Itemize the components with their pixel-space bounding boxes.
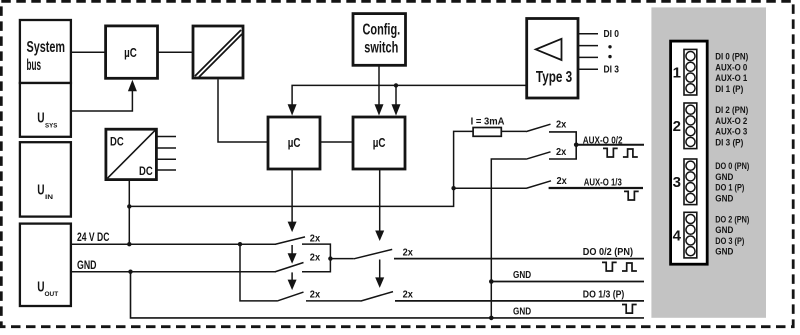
bus wire from Type 3 to uC2 xyxy=(292,85,527,104)
pin labels group 4 xyxy=(715,215,749,258)
arrow into uC2 top xyxy=(288,104,297,115)
svg-text:U: U xyxy=(37,110,44,127)
waveform negative pulse xyxy=(603,148,618,157)
svg-text:4: 4 xyxy=(673,228,682,245)
node on 24V rail xyxy=(127,242,131,246)
svg-text:U: U xyxy=(37,278,44,295)
svg-text:2x: 2x xyxy=(310,233,321,244)
wire internal rail to current source xyxy=(129,131,473,206)
switch DO 1/3 first 2x xyxy=(277,292,304,301)
switch DO 1/3 second 2x xyxy=(361,292,394,302)
wire bottom GND rail xyxy=(131,272,645,318)
waveform positive pulse xyxy=(622,263,637,271)
svg-text:I = 3mA: I = 3mA xyxy=(471,116,505,127)
block U_IN xyxy=(20,142,71,216)
node bottom rail to AUX low xyxy=(489,316,494,321)
wire feed to AUX-O 1/3 switch xyxy=(454,187,526,189)
comparator block Type 3 input stage xyxy=(527,19,578,99)
svg-text:Type 3: Type 3 xyxy=(536,69,573,86)
svg-text:DC: DC xyxy=(110,134,124,148)
svg-text:DO 2 (PN): DO 2 (PN) xyxy=(715,215,749,226)
wire uC1 to isolator xyxy=(158,51,194,53)
wire resistor to AUX switch xyxy=(501,130,526,132)
svg-text:OUT: OUT xyxy=(45,291,59,298)
wire AUX-O 0/2 output xyxy=(576,144,644,146)
svg-text:GND: GND xyxy=(715,225,733,236)
svg-text:24 V DC: 24 V DC xyxy=(77,230,110,244)
svg-text:2: 2 xyxy=(673,118,681,135)
block U_OUT xyxy=(20,224,71,306)
svg-text:2x: 2x xyxy=(310,289,321,300)
wire GND to AUX low switch xyxy=(491,159,526,318)
wire bridge node to series switch xyxy=(330,258,353,260)
node bridge output xyxy=(328,256,332,260)
svg-text:DO 0/2 (PN): DO 0/2 (PN) xyxy=(583,247,633,258)
svg-text:µC: µC xyxy=(373,136,386,150)
wire Config. switch to uC3 with arrow xyxy=(378,65,380,104)
svg-text:2x: 2x xyxy=(557,176,568,187)
microcontroller uC1 xyxy=(106,26,158,78)
svg-text:µC: µC xyxy=(124,46,137,60)
svg-text:AUX-O 1: AUX-O 1 xyxy=(715,73,748,84)
svg-text:bus: bus xyxy=(27,57,42,74)
isolator block (galvanic isolation) xyxy=(193,26,243,78)
svg-text:IN: IN xyxy=(45,194,53,201)
pin labels group 2 xyxy=(715,105,748,148)
node DC/DC internal rail xyxy=(127,204,131,208)
connector pin group 1 xyxy=(684,49,697,95)
wire 24V branch to DO 1/3 row xyxy=(240,244,277,301)
wire uC2 to uC3 xyxy=(320,141,353,143)
wire uC3 control arrows xyxy=(375,169,384,288)
microcontroller uC2 xyxy=(268,117,320,169)
wire DO 1/3 (P) output xyxy=(395,300,644,302)
wire U_SYS to uC1 with arrow xyxy=(71,80,137,111)
wire DC/DC down to 24V rail xyxy=(128,180,130,245)
svg-text:System: System xyxy=(27,39,66,56)
svg-text:AUX-O 0/2: AUX-O 0/2 xyxy=(583,136,623,147)
svg-text:AUX-O 1/3: AUX-O 1/3 xyxy=(584,177,622,188)
pin labels group 1 xyxy=(715,52,748,95)
switch AUX-O high side 2x xyxy=(526,124,551,131)
svg-text:DI 3: DI 3 xyxy=(604,65,620,76)
svg-text:DO 3 (P): DO 3 (P) xyxy=(715,236,744,247)
svg-text:switch: switch xyxy=(364,40,398,57)
svg-text:GND: GND xyxy=(77,258,97,272)
wire isolator to uC2 xyxy=(218,79,268,142)
connector pin group 3 xyxy=(684,159,697,205)
svg-text:DI 1 (P): DI 1 (P) xyxy=(715,84,743,95)
svg-text:GND: GND xyxy=(715,193,733,204)
svg-text:DO 1 (P): DO 1 (P) xyxy=(715,183,744,194)
connector pin group 2 xyxy=(684,103,697,149)
wire uC2 control arrows xyxy=(288,169,297,290)
switch AUX-O 1/3 2x xyxy=(526,181,551,189)
svg-text:2x: 2x xyxy=(403,289,414,300)
block Config. switch xyxy=(353,14,406,66)
waveform negative pulse xyxy=(624,191,639,200)
node feed AUX-O 1/3 xyxy=(451,186,455,190)
svg-text:2x: 2x xyxy=(310,253,321,264)
block U_SYS xyxy=(20,83,71,137)
svg-text:2x: 2x xyxy=(556,147,567,158)
wire between DO 1/3 switches xyxy=(306,300,361,302)
DC/DC output stubs xyxy=(157,137,176,171)
svg-text:µC: µC xyxy=(288,136,301,150)
svg-text:DI 0: DI 0 xyxy=(604,29,620,40)
svg-text:DO 0 (PN): DO 0 (PN) xyxy=(715,161,749,172)
svg-text:DO 1/3 (P): DO 1/3 (P) xyxy=(583,290,625,301)
wire AUX-O 1/3 output xyxy=(549,187,643,189)
svg-text:DI 0 (PN): DI 0 (PN) xyxy=(715,52,748,63)
microcontroller uC3 xyxy=(353,117,405,169)
svg-text:SYS: SYS xyxy=(45,122,58,129)
svg-text:1: 1 xyxy=(673,65,681,82)
wire DO 0/2 (PN) output xyxy=(394,258,644,260)
switch DO low side 2x xyxy=(275,263,304,272)
switch DO 0/2 series 2x xyxy=(354,249,392,258)
wire GND rail xyxy=(71,271,276,273)
svg-text:GND: GND xyxy=(715,172,733,183)
connector pin group 4 xyxy=(684,212,697,258)
wire System bus to uC1 xyxy=(71,51,106,53)
wire bus to uC3 with arrow xyxy=(395,85,397,104)
svg-text:DI 3 (P): DI 3 (P) xyxy=(715,137,743,148)
svg-text:Config.: Config. xyxy=(363,21,401,38)
gray connector panel xyxy=(651,7,766,317)
waveform negative pulse xyxy=(602,262,617,271)
wire GND return mid xyxy=(491,281,644,283)
node AUX-O 0/2 xyxy=(574,143,579,148)
wire switch to AUX-O 0/2 node xyxy=(549,132,576,159)
node 24V to DO 1/3 branch xyxy=(238,242,242,246)
svg-text:AUX-O 2: AUX-O 2 xyxy=(715,116,747,127)
connector body outer xyxy=(671,41,708,264)
waveform negative pulse xyxy=(622,305,637,314)
node GND to bottom rail xyxy=(128,270,132,274)
svg-text:2x: 2x xyxy=(556,119,567,130)
wire to bridge node xyxy=(302,244,330,272)
svg-text:2x: 2x xyxy=(403,248,414,259)
svg-text:GND: GND xyxy=(513,306,531,317)
wire 24 V DC rail xyxy=(71,243,276,245)
svg-text:3: 3 xyxy=(673,174,681,191)
svg-text:DI 2 (PN): DI 2 (PN) xyxy=(715,105,748,116)
svg-text:AUX-O 3: AUX-O 3 xyxy=(715,127,747,138)
pin labels group 3 xyxy=(715,161,749,204)
svg-text:DC: DC xyxy=(139,164,153,178)
node GND mid xyxy=(489,279,494,284)
svg-text:GND: GND xyxy=(513,270,531,281)
svg-text:GND: GND xyxy=(715,247,733,258)
svg-text:AUX-O 0: AUX-O 0 xyxy=(715,62,747,73)
resistor I = 3mA xyxy=(473,128,501,137)
waveform positive pulse xyxy=(623,149,638,157)
block System bus xyxy=(20,20,71,83)
DC/DC converter block xyxy=(106,129,156,179)
switch AUX-O low side 2x xyxy=(526,152,551,159)
svg-text:U: U xyxy=(37,182,44,199)
node on bus xyxy=(394,83,398,87)
switch DO high side 2x xyxy=(275,237,305,245)
Type 3 input stubs and DI labels xyxy=(578,29,619,75)
